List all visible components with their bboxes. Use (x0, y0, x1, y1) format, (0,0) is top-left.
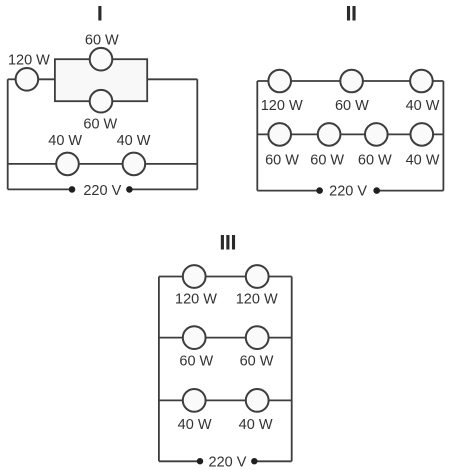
svg-text:40 W: 40 W (406, 153, 440, 169)
svg-text:120 W: 120 W (8, 53, 50, 69)
wire: circuit I left vertical (7, 79, 9, 189)
svg-text:60 W: 60 W (358, 153, 392, 169)
wire: circuit II bottom left to source terminal (257, 190, 319, 192)
lamp 60 W top branch (90, 48, 113, 71)
svg-text:40 W: 40 W (239, 417, 273, 433)
wire: circuit III left vertical (158, 277, 160, 462)
svg-text:120 W: 120 W (236, 292, 278, 308)
svg-text:40 W: 40 W (48, 133, 82, 149)
wire: circuit III right vertical (291, 277, 293, 462)
svg-text:60 W: 60 W (179, 353, 213, 369)
svg-text:III: III (219, 230, 236, 255)
svg-text:II: II (345, 0, 356, 25)
wire: circuit III bottom left to source terminal (159, 460, 200, 462)
source terminal dot left (circuit III) (197, 458, 203, 464)
svg-text:60 W: 60 W (240, 353, 274, 369)
lamp 40 W right (123, 153, 146, 176)
svg-text:40 W: 40 W (406, 98, 440, 114)
source terminal dot right (circuit III) (251, 458, 257, 464)
wire: source terminal to bottom right (129, 188, 197, 190)
wire: circuit II right vertical (442, 81, 444, 191)
wire: 40 W series row (8, 163, 198, 165)
wire: circuit II source terminal to bottom right (377, 190, 444, 192)
wire: circuit III source terminal to bottom right (254, 460, 291, 462)
lamp 120 W (16, 68, 39, 91)
svg-text:40 W: 40 W (117, 133, 151, 149)
lamp 40 W left (III bottom row) (183, 389, 206, 412)
source terminal dot left (circuit II) (316, 187, 323, 194)
svg-text:60 W: 60 W (83, 117, 117, 133)
svg-text:120 W: 120 W (261, 98, 303, 114)
wire: lamp 120 W to parallel box (36, 78, 55, 80)
wire: circuit II second series row (257, 133, 443, 135)
source terminal dot left (circuit I) (69, 186, 76, 193)
lamp 60 W second (II second row) (318, 123, 341, 146)
source terminal dot right (circuit II) (373, 187, 380, 194)
svg-text:60 W: 60 W (85, 32, 119, 48)
svg-text:120 W: 120 W (175, 292, 217, 308)
lamp 60 W right (III middle row) (246, 326, 269, 349)
lamp 40 W right (III bottom row) (246, 389, 269, 412)
lamp 120 W (II top row) (268, 70, 291, 93)
wire: circuit III top branch row (159, 276, 292, 278)
svg-text:220 V: 220 V (209, 454, 247, 470)
lamp 40 W (II second row) (411, 123, 434, 146)
wire: parallel box to right vertical (147, 78, 197, 80)
wire: bottom left to source terminal (8, 188, 72, 190)
svg-text:220 V: 220 V (329, 184, 367, 200)
wire: circuit II top series row (257, 80, 443, 82)
svg-text:40 W: 40 W (178, 417, 212, 433)
lamp 60 W first (II second row) (268, 123, 291, 146)
svg-text:60 W: 60 W (335, 98, 369, 114)
lamp 60 W bottom branch (90, 90, 113, 113)
wire: circuit II left vertical (256, 81, 258, 191)
lamp 40 W (II top row) (410, 70, 433, 93)
lamp 120 W right (III top row) (246, 265, 269, 288)
lamp 120 W left (III top row) (183, 265, 206, 288)
lamp 60 W (II top row) (340, 70, 363, 93)
wire: circuit III bottom branch row (159, 399, 292, 401)
wire: parallel branch rectangle (two 60 W branches) (55, 59, 147, 101)
wire: circuit III middle branch row (159, 337, 292, 339)
lamp 60 W left (III middle row) (183, 326, 206, 349)
svg-text:60 W: 60 W (265, 153, 299, 169)
lamp 40 W left (56, 153, 79, 176)
wire: stub from left vertical to lamp 120 W (8, 78, 18, 80)
svg-text:I: I (97, 0, 103, 25)
source terminal dot right (circuit I) (126, 186, 133, 193)
wire: circuit I right vertical (196, 79, 198, 189)
svg-text:220 V: 220 V (83, 183, 121, 199)
lamp 60 W third (II second row) (365, 123, 388, 146)
svg-text:60 W: 60 W (310, 153, 344, 169)
